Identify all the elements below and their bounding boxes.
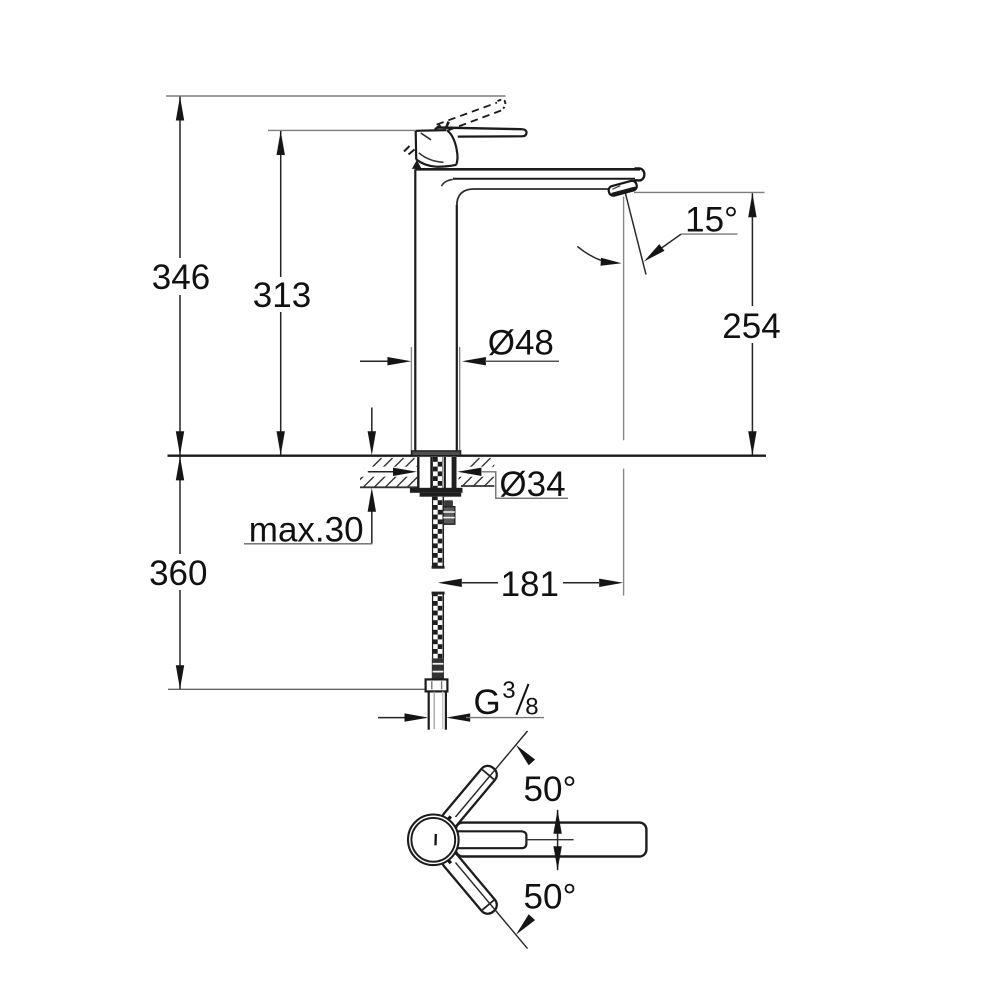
svg-text:max.30: max.30	[249, 510, 364, 549]
svg-text:G: G	[474, 683, 501, 722]
svg-text:181: 181	[501, 565, 559, 604]
svg-text:50°: 50°	[524, 770, 577, 809]
svg-text:Ø48: Ø48	[488, 324, 554, 363]
svg-text:3: 3	[502, 677, 515, 704]
svg-text:15°: 15°	[685, 200, 738, 239]
svg-text:Ø34: Ø34	[499, 465, 565, 504]
svg-text:346: 346	[152, 258, 210, 297]
svg-text:50°: 50°	[524, 877, 577, 916]
svg-text:313: 313	[253, 276, 311, 315]
svg-text:8: 8	[525, 694, 538, 721]
svg-text:254: 254	[722, 307, 780, 346]
svg-text:360: 360	[149, 554, 207, 593]
